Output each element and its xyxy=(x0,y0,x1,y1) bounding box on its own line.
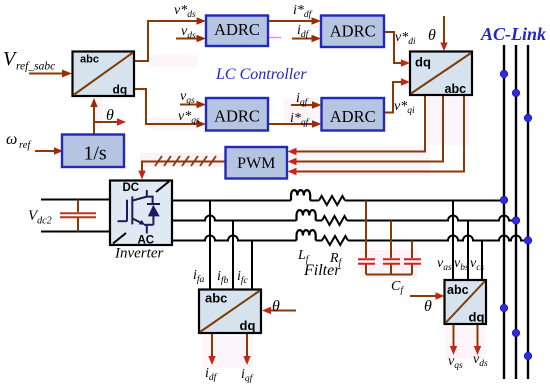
svg-text:θ: θ xyxy=(106,107,114,124)
svg-text:ref_sabc: ref_sabc xyxy=(16,61,55,73)
svg-text:θ: θ xyxy=(272,298,280,315)
svg-text:abc: abc xyxy=(447,283,469,297)
svg-text:dq: dq xyxy=(113,83,128,97)
svg-text:PWM: PWM xyxy=(237,155,275,172)
svg-text:ADRC: ADRC xyxy=(214,20,260,39)
svg-text:abc: abc xyxy=(205,290,227,305)
svg-text:ADRC: ADRC xyxy=(214,106,260,125)
svg-text:dq: dq xyxy=(469,310,485,325)
svg-text:θ: θ xyxy=(428,27,436,44)
svg-text:dq: dq xyxy=(415,55,431,70)
svg-text:DC: DC xyxy=(123,182,140,194)
svg-text:AC-Link: AC-Link xyxy=(480,24,546,44)
svg-text:dq: dq xyxy=(240,318,256,333)
svg-text:Inverter: Inverter xyxy=(114,246,163,262)
svg-text:ADRC: ADRC xyxy=(330,22,376,41)
svg-text:Filter: Filter xyxy=(303,262,341,279)
svg-text:ADRC: ADRC xyxy=(330,107,376,126)
svg-text:ω: ω xyxy=(6,131,17,148)
svg-text:θ: θ xyxy=(424,298,432,315)
svg-text:abc: abc xyxy=(80,54,99,66)
svg-text:abc: abc xyxy=(445,82,467,96)
svg-text:1/s: 1/s xyxy=(83,143,107,165)
svg-text:LC Controller: LC Controller xyxy=(215,66,307,83)
